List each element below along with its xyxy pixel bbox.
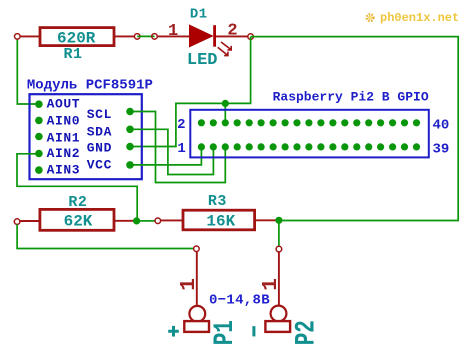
wire net VCC	[133, 148, 201, 165]
pin SCL	[87, 107, 134, 122]
svg-text:GND: GND	[87, 140, 112, 155]
resistor R2	[14, 194, 134, 230]
svg-text:Модуль PCF8591P: Модуль PCF8591P	[27, 77, 153, 93]
wire net GND (LED down, to module GND)	[133, 37, 251, 147]
junction R3/GND rail	[275, 217, 282, 224]
svg-text:2: 2	[227, 22, 237, 41]
logo ph0en1x.net	[367, 11, 459, 25]
pin AIN0	[35, 114, 80, 129]
svg-text:D1: D1	[190, 7, 208, 23]
connector J1 Raspberry Pi2 B GPIO	[190, 89, 429, 157]
svg-text:40: 40	[432, 118, 449, 134]
wire branch to GPIO pin6	[224, 103, 226, 123]
svg-text:AIN1: AIN1	[47, 131, 81, 146]
wire net SDA	[133, 129, 213, 174]
svg-text:AOUT: AOUT	[47, 96, 81, 111]
LED D1	[152, 7, 254, 70]
svg-text:P2: P2	[292, 320, 322, 345]
pin AIN2	[35, 146, 80, 161]
svg-text:Raspberry Pi2 B GPIO: Raspberry Pi2 B GPIO	[273, 89, 429, 104]
svg-text:VCC: VCC	[87, 158, 112, 173]
pin row 1..39 (bottom)	[198, 143, 420, 150]
pin AIN3	[35, 162, 80, 177]
svg-text:SCL: SCL	[87, 107, 112, 122]
wire	[137, 35, 154, 37]
svg-text:R1: R1	[63, 46, 82, 63]
svg-text:1: 1	[260, 278, 283, 291]
pin AIN1	[35, 131, 80, 146]
probe P1	[168, 246, 241, 345]
svg-text:AIN0: AIN0	[47, 114, 81, 129]
wire net AIN2 to divider	[17, 154, 137, 220]
svg-text:R2: R2	[68, 194, 87, 211]
svg-text:1: 1	[178, 278, 201, 291]
svg-text:1: 1	[177, 141, 185, 157]
wire net AOUT (left rail to pin AOUT)	[17, 39, 36, 105]
svg-text:1: 1	[168, 22, 178, 41]
svg-text:AIN3: AIN3	[47, 162, 81, 177]
pin row 2..40 (top)	[198, 119, 420, 126]
pin GND	[87, 140, 134, 155]
svg-text:39: 39	[432, 142, 449, 158]
svg-text:SDA: SDA	[87, 124, 112, 139]
svg-text:LED: LED	[187, 51, 218, 70]
pin SDA	[87, 124, 134, 139]
pin AOUT	[35, 96, 80, 111]
svg-text:16K: 16K	[206, 212, 235, 230]
svg-text:P1: P1	[210, 320, 240, 345]
wire net SCL	[133, 112, 225, 183]
svg-text:R3: R3	[208, 193, 227, 210]
pin VCC	[87, 158, 134, 173]
probe P2	[254, 246, 322, 345]
wire	[140, 220, 155, 222]
svg-text:0−14,8В: 0−14,8В	[209, 293, 270, 309]
resistor R3	[155, 193, 276, 231]
junction	[222, 100, 229, 107]
wire to P2	[278, 223, 280, 246]
svg-text:ph0en1x.net: ph0en1x.net	[380, 11, 459, 25]
svg-text:62K: 62K	[64, 212, 93, 230]
svg-text:620R: 620R	[57, 30, 96, 48]
svg-text:AIN2: AIN2	[47, 146, 81, 161]
resistor R1	[14, 28, 140, 63]
svg-text:2: 2	[177, 117, 185, 133]
junction R2/R3/AIN2	[133, 217, 140, 224]
module U1 PCF8591P box	[27, 77, 153, 179]
wire to P1	[17, 224, 193, 248]
wire net GND top (LED to right rail)	[251, 37, 459, 221]
